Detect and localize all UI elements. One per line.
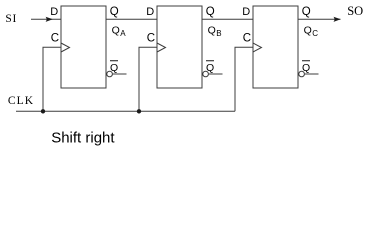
svg-text:B: B (216, 29, 221, 38)
svg-text:A: A (120, 29, 126, 38)
svg-text:Q: Q (206, 6, 215, 18)
svg-text:Shift right: Shift right (51, 129, 115, 146)
svg-text:Q: Q (304, 25, 312, 37)
svg-text:Q: Q (302, 62, 310, 74)
svg-text:D: D (50, 6, 58, 18)
svg-text:Q: Q (110, 62, 118, 74)
svg-text:C: C (147, 32, 155, 44)
svg-text:Q: Q (110, 6, 119, 18)
svg-text:D: D (146, 6, 154, 18)
svg-text:Q: Q (206, 62, 214, 74)
svg-text:CLK: CLK (8, 95, 34, 107)
svg-text:SI: SI (5, 13, 17, 25)
svg-text:SO: SO (347, 4, 363, 18)
svg-text:Q: Q (112, 25, 120, 37)
svg-text:C: C (312, 29, 318, 38)
svg-text:D: D (242, 6, 250, 18)
svg-text:C: C (243, 32, 251, 44)
svg-text:Q: Q (208, 25, 216, 37)
svg-text:Q: Q (302, 6, 311, 18)
svg-text:C: C (51, 32, 59, 44)
